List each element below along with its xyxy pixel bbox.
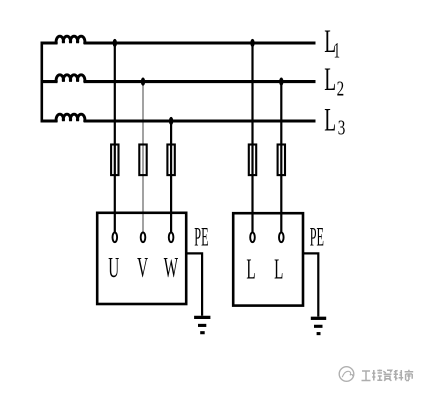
wire: PE tap from right box — [303, 253, 319, 316]
label L (first) — [246, 253, 255, 284]
svg-text:V: V — [137, 252, 148, 283]
inductor on L3 — [56, 114, 85, 121]
label PE (left) — [194, 224, 208, 252]
device box: single-phase load with L L terminals — [233, 213, 303, 305]
wire: L3 line — [84, 119, 316, 122]
label L2 — [324, 61, 344, 100]
watermark logo icon — [339, 367, 354, 382]
inductor on L2 — [56, 75, 85, 82]
svg-text:1: 1 — [334, 38, 340, 62]
wire: drop from L1 to right box L terminal — [251, 43, 253, 234]
label L (second) — [274, 253, 283, 284]
wire: L2 line left stub — [41, 80, 58, 83]
svg-text:L: L — [324, 101, 336, 138]
label L3 — [324, 101, 345, 139]
svg-text:2: 2 — [337, 77, 345, 100]
wire: drop from L2 to right box second L terminal — [280, 82, 282, 234]
svg-text:PE: PE — [194, 224, 208, 252]
wire: drop from L2 to V terminal (grey) — [142, 82, 144, 234]
wire: L3 line left stub — [41, 119, 58, 122]
wire: left bus connecting line inputs — [40, 42, 43, 123]
node: junction on L1 at U drop — [113, 39, 117, 47]
svg-text:L: L — [324, 61, 336, 98]
node: junction on L1 at right drop — [250, 39, 254, 47]
label V — [137, 252, 148, 283]
device box: three-phase load with U V W terminals — [97, 213, 186, 304]
terminal L (first) — [250, 232, 255, 242]
terminal U — [113, 232, 118, 242]
terminal L (second) — [279, 232, 284, 242]
wire: L1 line left stub — [41, 41, 58, 44]
terminal V — [141, 232, 146, 242]
wire: drop from L3 to W terminal — [170, 121, 172, 234]
label L1 — [324, 23, 340, 63]
fuse F3 on W drop — [167, 145, 174, 176]
node: junction on L2 at right second drop — [279, 78, 283, 86]
wire: drop from L1 to U terminal — [114, 43, 116, 234]
svg-text:PE: PE — [310, 224, 324, 252]
label W — [164, 252, 179, 283]
watermark text 工控资料窝 (drawn strokes) — [362, 370, 414, 381]
fuse F4 on right first drop — [249, 145, 256, 176]
node: junction on L2 at V drop — [141, 78, 145, 86]
wire: L2 line — [84, 80, 316, 83]
fuse F5 on right second drop — [278, 145, 285, 176]
svg-text:L: L — [274, 253, 283, 284]
terminal W — [169, 232, 174, 242]
inductor on L1 — [56, 36, 85, 43]
svg-text:W: W — [164, 252, 179, 283]
label U — [108, 252, 119, 283]
fuse F1 on U drop — [111, 145, 118, 176]
ground symbol (right) — [311, 318, 326, 333]
wire: L1 line — [84, 41, 316, 44]
svg-text:U: U — [108, 252, 119, 283]
svg-text:3: 3 — [338, 116, 346, 139]
fuse F2 on V drop — [139, 145, 146, 176]
ground symbol (left) — [194, 317, 210, 332]
wire: PE tap from left box — [187, 253, 202, 315]
node: junction on L3 at W drop — [169, 117, 173, 125]
svg-text:L: L — [246, 253, 255, 284]
label PE (right) — [310, 224, 324, 252]
